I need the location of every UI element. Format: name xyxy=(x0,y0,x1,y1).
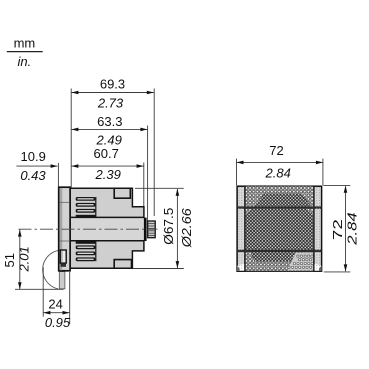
svg-text:in.: in. xyxy=(18,54,32,69)
svg-text:24: 24 xyxy=(48,297,62,312)
svg-text:0.95: 0.95 xyxy=(45,315,71,330)
svg-text:10.9: 10.9 xyxy=(21,149,46,164)
svg-text:2.73: 2.73 xyxy=(97,96,124,111)
svg-text:2.01: 2.01 xyxy=(17,246,32,272)
svg-text:Ø2.66: Ø2.66 xyxy=(180,208,194,248)
svg-text:0.43: 0.43 xyxy=(20,168,46,183)
svg-text:63.3: 63.3 xyxy=(97,114,122,129)
svg-text:mm: mm xyxy=(14,36,36,51)
svg-text:51: 51 xyxy=(2,253,17,267)
svg-text:2.49: 2.49 xyxy=(96,132,122,147)
svg-text:Ø67.5: Ø67.5 xyxy=(161,208,176,245)
svg-text:72: 72 xyxy=(269,143,283,158)
svg-text:2.39: 2.39 xyxy=(95,167,121,182)
svg-text:72: 72 xyxy=(331,219,345,240)
svg-text:69.3: 69.3 xyxy=(100,77,125,92)
svg-text:2.84: 2.84 xyxy=(265,165,291,180)
svg-text:60.7: 60.7 xyxy=(94,146,119,161)
svg-text:2.84: 2.84 xyxy=(345,212,360,245)
